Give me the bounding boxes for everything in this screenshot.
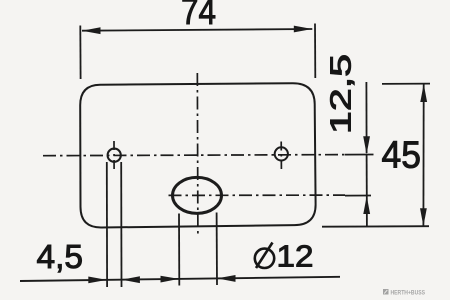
- dimension 45: bottom arrowhead: [420, 208, 427, 226]
- horizontal centerline (dash-dot through mounting holes): [43, 155, 345, 156]
- svg-text:12: 12: [277, 239, 314, 274]
- dimension ø12: right extension line from oval: [216, 213, 218, 286]
- dimension 12,5: lower dimension line tail: [366, 197, 368, 227]
- svg-text:12,5: 12,5: [326, 54, 358, 134]
- left small hole (diameter 4,5): [108, 149, 121, 162]
- svg-text:74: 74: [181, 0, 216, 32]
- Herth+Buss logo mark: [383, 289, 389, 295]
- dimension 45: bottom extension line (part bottom extended): [322, 225, 429, 228]
- svg-text:45: 45: [382, 134, 422, 176]
- dimension 4,5: right extension line from small hole: [120, 162, 122, 287]
- dimension ø12: right arrowhead: [217, 275, 236, 282]
- dimension 74: right extension line: [314, 24, 316, 79]
- dimension 45: top extension line: [382, 83, 430, 85]
- dimension 45: dimension line: [422, 84, 424, 226]
- dimension text ø12: diameter symbol circle: [255, 249, 274, 268]
- oval centerline solid right extension: [345, 195, 371, 197]
- horizontal centerline solid right extension: [345, 154, 374, 156]
- oval hole (diameter 12): [173, 177, 222, 213]
- dimension 12,5: down arrowhead at centerline: [363, 136, 370, 154]
- dimension 45: top arrowhead: [420, 84, 427, 102]
- dimension 12,5: up arrowhead at oval centerline: [363, 196, 370, 214]
- bottom dimension line (shared, 4,5 and ø12): [20, 277, 340, 281]
- dimension 74: right arrowhead: [294, 26, 313, 33]
- left hole vertical mini centerline: [113, 141, 115, 170]
- dimension 74: left arrowhead: [82, 27, 101, 34]
- dimension 74: left extension line: [79, 26, 81, 80]
- dimension text ø12: diameter symbol slash: [256, 243, 273, 269]
- oval hole horizontal centerline (dash-dot): [169, 194, 346, 196]
- dimension ø12: left extension line from oval: [178, 214, 180, 286]
- part outline (rounded rectangle body): [80, 83, 315, 227]
- right hole vertical mini centerline: [280, 142, 282, 170]
- dimension 74: dimension line: [82, 29, 312, 31]
- svg-text:4,5: 4,5: [37, 238, 84, 275]
- right small hole: [275, 147, 288, 160]
- dimension 4,5: right arrowhead: [121, 276, 139, 283]
- dimension 4,5: left arrowhead: [88, 277, 107, 284]
- dimension 4,5: left extension line from small hole: [106, 162, 108, 287]
- dimension 12,5: upper dimension line tail: [365, 82, 367, 153]
- dimension 12,5: middle segment between arrows: [366, 154, 368, 197]
- vertical centerline (dash-dot): [196, 73, 199, 234]
- dimension ø12: left arrowhead: [161, 276, 180, 283]
- svg-text:HERTH+BUSS: HERTH+BUSS: [391, 289, 426, 296]
